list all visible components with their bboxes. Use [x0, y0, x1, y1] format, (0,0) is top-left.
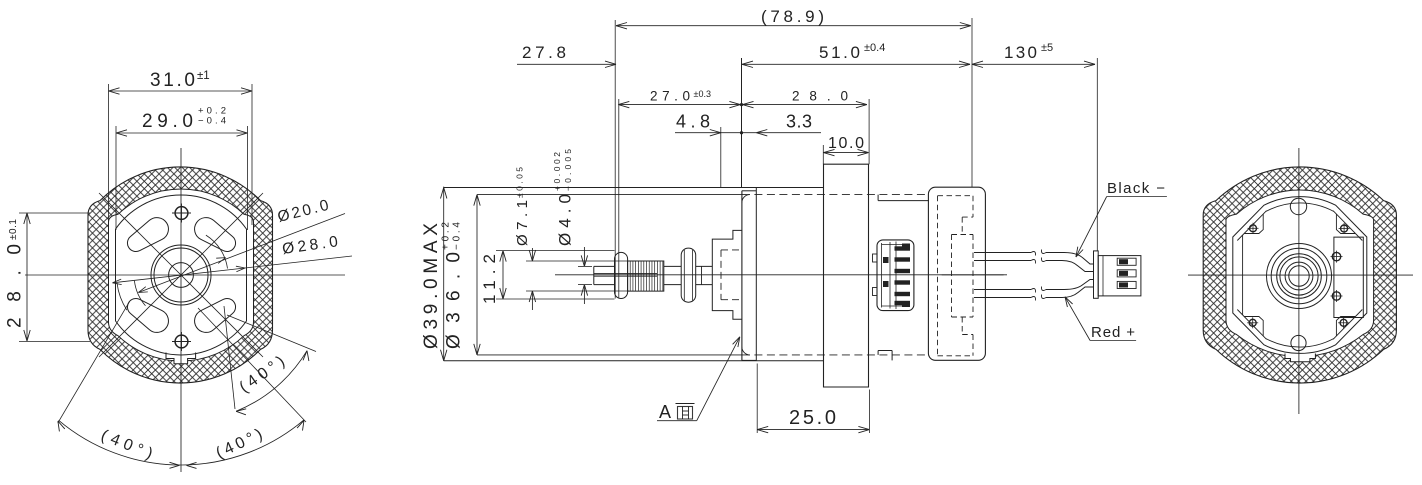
- lead wires: [974, 252, 1031, 254]
- motor end bell outline (chamfered): [1233, 197, 1367, 354]
- svg-text:31.0: 31.0: [150, 70, 195, 91]
- svg-text:±0.3: ±0.3: [694, 89, 711, 99]
- angle extension line A (bottom-right slot): [224, 306, 235, 409]
- svg-text:29.0: 29.0: [142, 111, 193, 132]
- dimension 4.8: [675, 132, 721, 134]
- brush card side plate: [1334, 237, 1363, 317]
- rear bearing concentric circles: [1289, 266, 1309, 286]
- terminal block: [877, 240, 914, 311]
- angle extension line left 40deg: [58, 301, 130, 422]
- dimension 31.0 +-1: [109, 90, 253, 92]
- body hidden lines dia 36: [477, 194, 742, 196]
- angle dimension arc upper-right (40): [236, 351, 307, 412]
- svg-text:4.8: 4.8: [676, 112, 710, 132]
- dimension 3.3: [756, 132, 821, 134]
- rotor slots (4 teardrop openings): [127, 218, 168, 252]
- svg-text:−0.005: −0.005: [563, 149, 573, 191]
- svg-text:51.0: 51.0: [819, 43, 860, 62]
- end cap hidden details: [937, 196, 939, 356]
- svg-text:Ø7.1: Ø7.1: [514, 200, 531, 246]
- dimension 28.0 +-0.1 (vertical, screw pitch): [26, 213, 28, 341]
- svg-text:(78.9): (78.9): [761, 7, 824, 26]
- dimension 27.8: [517, 63, 616, 65]
- splined shaft section: [628, 261, 664, 291]
- label Black minus: [1107, 196, 1167, 198]
- svg-text:27.0: 27.0: [650, 89, 690, 104]
- front view centerlines: [25, 274, 345, 276]
- motor rubber damper ring (front view) with cross-hatch: [88, 167, 273, 383]
- dimension 29.0 +0.2/-0.4: [116, 132, 248, 134]
- dimension 25.0: [757, 429, 869, 431]
- svg-text:+0.002: +0.002: [552, 152, 562, 191]
- dimension 11.2: [502, 251, 504, 299]
- rear bottom notch: [1285, 354, 1315, 362]
- label Red plus: [1090, 340, 1136, 342]
- svg-text:±0.05: ±0.05: [515, 167, 525, 198]
- svg-text:Ø20.0: Ø20.0: [276, 197, 331, 226]
- motor body outline side view: [444, 187, 824, 189]
- svg-text:130: 130: [1004, 43, 1037, 62]
- front bearing boss: [712, 230, 742, 319]
- wire break symbols: [1031, 250, 1046, 256]
- svg-text:Ø28.0: Ø28.0: [281, 233, 339, 258]
- rear top hole circle: [1290, 198, 1306, 214]
- shaft dia 4.0: [594, 265, 615, 267]
- rear bottom hole circle: [1291, 335, 1306, 350]
- dimension (78.9): [616, 25, 971, 27]
- rear end cap: [928, 187, 985, 360]
- dimension dia 4.0 +0.002/-0.005: [583, 247, 585, 266]
- dimension 51.0 +-0.4: [742, 63, 970, 65]
- mounting screw hole top: [175, 207, 188, 220]
- svg-text:11.2: 11.2: [480, 254, 499, 304]
- bottom T-notch in damper: [166, 353, 196, 364]
- svg-text:28.0: 28.0: [5, 244, 26, 328]
- svg-text:(40°): (40°): [214, 426, 266, 462]
- 45-degree slot centerlines: [99, 193, 263, 357]
- front face corner fillets (A-face): [742, 195, 750, 203]
- hidden bore (4.8): [720, 250, 722, 300]
- brush card screws: [1332, 252, 1340, 260]
- svg-text:(40°): (40°): [99, 427, 155, 463]
- svg-text:25.0: 25.0: [789, 407, 836, 429]
- terminal block left tabs: [873, 254, 878, 262]
- angle extension line right 40deg: [198, 308, 306, 422]
- svg-text:Red +: Red +: [1091, 324, 1135, 341]
- dimension 27.0 +-0.3: [618, 104, 740, 106]
- dimension 10.0: [824, 152, 869, 154]
- shaft collar ring: [681, 248, 696, 302]
- angle dimension arc bottom (40)(40): [59, 420, 304, 465]
- rubber damper ring side view: [824, 164, 869, 387]
- motor front face: [741, 191, 743, 361]
- rear body section: [877, 195, 879, 201]
- label A-face: [657, 420, 697, 422]
- cap centerline: [942, 274, 1004, 276]
- corner tabs: [1245, 214, 1264, 234]
- shaft mid line (dark): [594, 273, 657, 275]
- corner chamfer second lines: [1237, 211, 1266, 241]
- svg-text:−0.4: −0.4: [452, 222, 463, 250]
- dimension 28.0 (ring): [743, 104, 867, 106]
- rear rubber damper ring with cross-hatch: [1203, 167, 1396, 383]
- leader diameter 28.0: [113, 256, 353, 283]
- svg-text:27.8: 27.8: [522, 43, 566, 62]
- shaft front bushing flange: [615, 252, 628, 298]
- connector housing: [1094, 251, 1099, 298]
- dimension dia 36.0: [476, 195, 478, 355]
- connector pins: [1117, 258, 1136, 265]
- svg-text:±0.4: ±0.4: [864, 42, 885, 54]
- center shaft circles: [169, 263, 194, 288]
- svg-text:Ø36.0: Ø36.0: [444, 252, 465, 349]
- leader diameter 20.0: [138, 214, 345, 293]
- end cap circle with side flats: [116, 195, 247, 355]
- svg-text:±0.1: ±0.1: [8, 219, 19, 240]
- rear corner screws: [1250, 225, 1257, 232]
- svg-text:−0.4: −0.4: [198, 116, 226, 127]
- angle extension line Q (upper-right): [227, 315, 316, 352]
- svg-text:3.3: 3.3: [786, 112, 812, 132]
- side view centerline: [555, 274, 1007, 276]
- wires to connector: [1046, 253, 1094, 265]
- mounting screw hole bottom: [175, 335, 188, 348]
- svg-text:Ø39.0MAX: Ø39.0MAX: [421, 223, 442, 349]
- svg-text:+0.2: +0.2: [441, 222, 452, 250]
- svg-text:±5: ±5: [1041, 42, 1053, 54]
- svg-text:±1: ±1: [197, 70, 210, 82]
- svg-text:Black −: Black −: [1107, 180, 1165, 197]
- svg-text:28.0: 28.0: [792, 89, 848, 104]
- svg-text:A: A: [659, 402, 671, 422]
- end bell rim arcs: [1266, 203, 1334, 211]
- svg-text:10.0: 10.0: [828, 135, 864, 152]
- dimension dia 39.0 MAX: [443, 187, 445, 361]
- dimension dia 7.1 +-0.05: [531, 248, 533, 261]
- rear view centerlines: [1188, 274, 1413, 276]
- svg-text:Ø4.0: Ø4.0: [556, 194, 575, 246]
- dimension 130 +-5: [972, 63, 1095, 65]
- pitch circle arcs near lower-left: [117, 283, 127, 310]
